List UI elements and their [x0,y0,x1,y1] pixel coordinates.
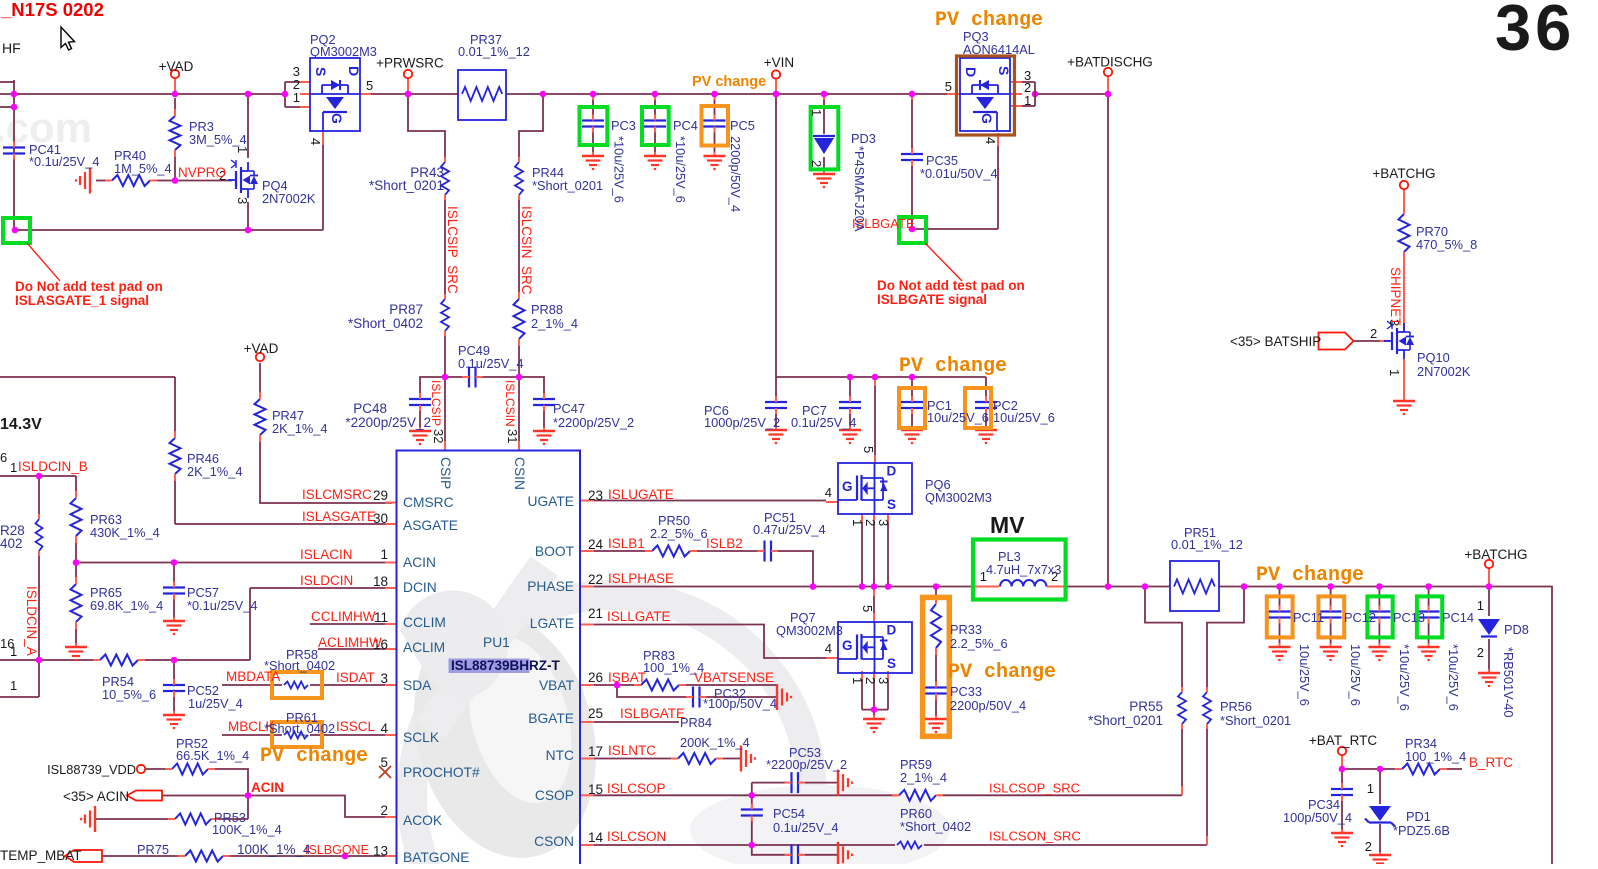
svg-text:S: S [887,656,896,671]
svg-text:31: 31 [505,429,520,443]
svg-text:4.7uH_7x7x3: 4.7uH_7x7x3 [986,562,1061,577]
svg-text:D: D [963,67,979,77]
svg-text:26: 26 [588,670,603,685]
svg-text:2.2_5%_6: 2.2_5%_6 [950,636,1008,651]
svg-text:BGATE: BGATE [528,711,574,726]
svg-text:32: 32 [431,429,446,443]
svg-text:36: 36 [1495,0,1575,64]
svg-text:*10u/25V_6: *10u/25V_6 [1446,644,1461,711]
svg-text:PC3: PC3 [611,118,636,133]
svg-text:1000p/25V_2: 1000p/25V_2 [704,415,780,430]
svg-text:ISDAT: ISDAT [336,670,375,685]
svg-text:2K_1%_4: 2K_1%_4 [272,421,328,436]
svg-text:25: 25 [588,706,603,721]
svg-text:*0.1u/25V_4: *0.1u/25V_4 [29,154,99,169]
svg-text:5: 5 [860,605,875,612]
svg-text:PR56: PR56 [1220,699,1252,714]
svg-text:PR87: PR87 [389,302,423,317]
svg-text:ISL88739BHRZ-T: ISL88739BHRZ-T [451,658,561,673]
svg-text:ISLCSIP_SRC: ISLCSIP_SRC [445,206,460,294]
svg-text:*0.1u/25V_4: *0.1u/25V_4 [187,598,257,613]
svg-text:430K_1%_4: 430K_1%_4 [90,525,160,540]
svg-text:PC47: PC47 [553,401,585,416]
svg-text:ISLDCIN: ISLDCIN [300,573,353,588]
svg-text:*Short_0201: *Short_0201 [369,178,444,193]
svg-text:CMSRC: CMSRC [403,495,454,510]
svg-text:S: S [996,66,1012,75]
svg-text:ISLBGATE signal: ISLBGATE signal [877,292,987,307]
svg-text:PC13: PC13 [1393,610,1425,625]
svg-text:0.47u/25V_4: 0.47u/25V_4 [753,522,826,537]
svg-text:6: 6 [0,450,7,465]
svg-text:3M_5%_4: 3M_5%_4 [189,132,247,147]
svg-text:1: 1 [850,519,865,526]
svg-text:G: G [329,113,345,124]
svg-text:PR55: PR55 [1129,699,1163,714]
svg-text:*PDZ5.6B: *PDZ5.6B [1393,823,1450,838]
svg-text:QM3002M3: QM3002M3 [776,623,843,638]
svg-text:CSON: CSON [534,834,574,849]
svg-text:0.01_1%_12: 0.01_1%_12 [458,44,530,59]
svg-text:*0.01u/50V_4: *0.01u/50V_4 [920,166,998,181]
svg-text:PQ10: PQ10 [1417,350,1450,365]
svg-text:ACLIM: ACLIM [403,640,445,655]
svg-text:B_RTC: B_RTC [1469,755,1513,770]
svg-text:G: G [842,479,853,494]
svg-text:66.5K_1%_4: 66.5K_1%_4 [176,748,249,763]
svg-text:4: 4 [825,641,832,656]
svg-text:*100p/50V_4: *100p/50V_4 [703,696,777,711]
svg-text:0.1u/25V_4: 0.1u/25V_4 [458,356,523,371]
svg-text:BATGONE: BATGONE [403,850,469,864]
svg-text:1: 1 [10,460,17,475]
svg-text:100p/50V_4: 100p/50V_4 [1283,810,1352,825]
svg-text:1: 1 [293,90,300,105]
svg-text:ACOK: ACOK [403,813,443,828]
svg-text:VBATSENSE: VBATSENSE [694,670,774,685]
svg-text:PD1: PD1 [1406,809,1431,824]
svg-text:*Short_0402: *Short_0402 [264,658,335,673]
svg-text:10u/25V_6: 10u/25V_6 [1297,644,1312,706]
svg-text:PC48: PC48 [353,401,387,416]
svg-text:CSOP: CSOP [535,788,574,803]
svg-text:PC33: PC33 [950,684,982,699]
svg-text:2: 2 [809,160,824,167]
svg-text:PV change: PV change [899,355,1007,378]
svg-text:+VIN: +VIN [764,55,794,70]
svg-text:TEMP_MBAT: TEMP_MBAT [0,848,82,863]
svg-text:ISLASGATE: ISLASGATE [302,509,376,524]
svg-text:ISLDCIN_A: ISLDCIN_A [24,586,39,656]
svg-text:PC12: PC12 [1344,610,1376,625]
svg-text:ISL88739_VDD: ISL88739_VDD [47,762,136,777]
svg-text:3: 3 [876,519,891,526]
svg-text:PROCHOT#: PROCHOT# [403,765,480,780]
svg-text:5: 5 [366,78,373,93]
svg-text:LGATE: LGATE [530,616,574,631]
svg-text:10u/25V_6: 10u/25V_6 [1348,644,1363,706]
svg-text:10_5%_6: 10_5%_6 [102,687,156,702]
svg-text:2K_1%_4: 2K_1%_4 [187,464,243,479]
svg-text:*2200p/25V_2: *2200p/25V_2 [345,415,431,430]
svg-text:10u/25V_6: 10u/25V_6 [993,410,1055,425]
svg-text:MV: MV [990,512,1025,538]
svg-text:QM3002M3: QM3002M3 [925,490,992,505]
svg-text:1: 1 [10,644,17,659]
svg-text:21: 21 [588,606,603,621]
svg-text:0.1u/25V_4: 0.1u/25V_4 [791,415,856,430]
svg-text:1: 1 [809,109,824,116]
svg-text:PC4: PC4 [673,118,698,133]
svg-text:DCIN: DCIN [403,580,437,595]
svg-text:ACIN: ACIN [251,780,284,795]
svg-text:PV change: PV change [1256,564,1364,587]
svg-text:2: 2 [863,519,878,526]
svg-text:ISLCSON_SRC: ISLCSON_SRC [989,829,1081,844]
svg-text:17: 17 [588,744,603,759]
svg-text:100_1%_4: 100_1%_4 [1405,749,1466,764]
svg-text:AON6414AL: AON6414AL [963,42,1035,57]
svg-text:PC14: PC14 [1442,610,1474,625]
svg-text:*Short_0201: *Short_0201 [1088,713,1163,728]
svg-text:ISLB2: ISLB2 [706,536,743,551]
svg-text:+VAD: +VAD [244,341,279,356]
svg-text:Do Not add test pad on: Do Not add test pad on [15,279,163,294]
svg-text:5: 5 [945,79,952,94]
svg-text:S: S [887,497,896,512]
svg-text:4: 4 [380,721,388,736]
svg-text:200K_1%_4: 200K_1%_4 [680,735,750,750]
svg-text:22: 22 [588,572,603,587]
svg-text:D: D [887,623,897,638]
svg-text:1: 1 [380,547,388,562]
svg-text:ISLCSIP: ISLCSIP [429,380,443,426]
svg-text:ISSCL: ISSCL [336,719,376,734]
svg-text:ISLCSIN_SRC: ISLCSIN_SRC [519,206,534,295]
svg-text:ISLDCIN_B: ISLDCIN_B [18,459,88,474]
svg-text:CSIP: CSIP [438,457,453,489]
svg-text:2: 2 [380,803,388,818]
svg-text:*2200p/25V_2: *2200p/25V_2 [553,415,634,430]
svg-text:1: 1 [235,146,250,153]
svg-text:UGATE: UGATE [527,494,574,509]
svg-text:+VAD: +VAD [159,59,194,74]
svg-text:PC11: PC11 [1293,610,1324,625]
svg-text:G: G [979,113,995,124]
svg-text:PR84: PR84 [680,715,712,730]
svg-text:ISLBGATE: ISLBGATE [620,706,685,721]
svg-text:1: 1 [1387,369,1402,376]
svg-text:1: 1 [10,678,17,693]
svg-text:Do Not add test pad on: Do Not add test pad on [877,278,1025,293]
svg-text:SDA: SDA [403,678,432,693]
svg-text:14: 14 [588,830,604,845]
svg-text:29: 29 [373,488,388,503]
svg-text:3: 3 [235,197,250,204]
svg-text:2: 2 [1365,839,1372,854]
svg-text:PR75: PR75 [137,842,169,857]
svg-text:ISLUGATE: ISLUGATE [608,487,674,502]
svg-text:2N7002K: 2N7002K [262,191,316,206]
svg-text:100K_1%_4: 100K_1%_4 [237,842,311,857]
svg-text:2_1%_4: 2_1%_4 [900,770,947,785]
svg-text:1u/25V_4: 1u/25V_4 [188,696,243,711]
svg-text:18: 18 [373,574,388,589]
svg-text:SCLK: SCLK [403,730,440,745]
svg-text:PV change: PV change [948,661,1056,684]
svg-text:*Short_0201: *Short_0201 [1220,713,1291,728]
svg-text:NTC: NTC [546,748,574,763]
svg-text:PD3: PD3 [851,131,876,146]
svg-text:3: 3 [876,677,891,684]
svg-text:1: 1 [1367,781,1374,796]
svg-text:PR33: PR33 [950,622,982,637]
svg-text:HF: HF [2,40,21,56]
svg-text:ISLB1: ISLB1 [608,536,645,551]
svg-text:ISLCSOP: ISLCSOP [607,781,666,796]
svg-text:4: 4 [825,485,832,500]
svg-text:VBAT: VBAT [539,678,575,693]
svg-text:G: G [842,638,853,653]
svg-text:*10u/25V_6: *10u/25V_6 [673,136,688,203]
svg-text:24: 24 [588,537,604,552]
svg-text:1: 1 [1024,93,1031,108]
svg-text:*Short_0201: *Short_0201 [532,178,603,193]
svg-text:*RB501V-40: *RB501V-40 [1501,647,1516,717]
svg-text:+BAT_RTC: +BAT_RTC [1309,733,1377,748]
svg-text:4: 4 [308,138,323,145]
svg-text:<35> ACIN: <35> ACIN [63,789,129,804]
svg-text:*Short_0402: *Short_0402 [900,819,971,834]
svg-text:D: D [887,464,897,479]
svg-text:<35> BATSHIP: <35> BATSHIP [1230,334,1321,349]
svg-text:470_5%_8: 470_5%_8 [1416,237,1477,252]
svg-text:CCLIMHW: CCLIMHW [311,609,376,624]
svg-text:2: 2 [1477,645,1484,660]
svg-text:2: 2 [1370,326,1377,341]
svg-text:ISLCSIN: ISLCSIN [503,380,517,427]
svg-text:PC54: PC54 [773,806,805,821]
svg-text:ISLCSOP_SRC: ISLCSOP_SRC [989,781,1080,796]
svg-text:*Short_0402: *Short_0402 [348,316,423,331]
svg-text:ISLBGONE: ISLBGONE [305,843,369,857]
svg-text:ISLCMSRC: ISLCMSRC [302,487,372,502]
svg-text:*10u/25V_6: *10u/25V_6 [612,136,627,203]
svg-text:PV change: PV change [692,74,766,90]
svg-text:69.8K_1%_4: 69.8K_1%_4 [90,598,163,613]
svg-text:2N7002K: 2N7002K [1417,364,1471,379]
svg-text:2: 2 [863,677,878,684]
svg-text:CSIN: CSIN [512,457,527,490]
svg-text:CCLIM: CCLIM [403,615,446,630]
svg-text:*2200p/25V_2: *2200p/25V_2 [766,757,847,772]
svg-text:11: 11 [374,610,388,625]
svg-text:3: 3 [380,671,388,686]
svg-text:15: 15 [588,782,603,797]
svg-text:2200p/50V_4: 2200p/50V_4 [728,136,743,212]
svg-text:+PRWSRC: +PRWSRC [376,56,444,71]
svg-text:*Short_0402: *Short_0402 [264,721,335,736]
svg-text:+BATDISCHG: +BATDISCHG [1067,55,1153,70]
svg-text:_N17S 0202: _N17S 0202 [0,0,104,20]
svg-text:BOOT: BOOT [535,544,575,559]
svg-text:*10u/25V_6: *10u/25V_6 [1397,644,1412,711]
svg-text:ISLLGATE: ISLLGATE [607,609,671,624]
svg-text:PV change: PV change [260,745,368,768]
svg-text:ISLASGATE_1 signal: ISLASGATE_1 signal [15,293,149,308]
svg-text:5: 5 [380,755,388,770]
svg-text:1M_5%_4: 1M_5%_4 [114,161,172,176]
svg-text:ASGATE: ASGATE [403,518,458,533]
svg-text:2200p/50V_4: 2200p/50V_4 [950,698,1026,713]
svg-text:*P4SMAFJ20A: *P4SMAFJ20A [852,146,867,232]
svg-text:10u/25V_6: 10u/25V_6 [927,410,989,425]
svg-text:PHASE: PHASE [527,579,574,594]
svg-text:S: S [313,67,329,76]
svg-text:ISBAT: ISBAT [608,670,646,685]
svg-text:ISLACIN: ISLACIN [300,547,353,562]
svg-text:PD8: PD8 [1504,622,1529,637]
svg-text:23: 23 [588,488,603,503]
svg-text:+BATCHG: +BATCHG [1464,547,1527,562]
svg-text:4: 4 [983,137,998,144]
svg-text:ISLCSON: ISLCSON [607,829,666,844]
svg-text:PV change: PV change [935,9,1043,32]
svg-text:D: D [346,66,362,76]
svg-text:5: 5 [861,446,876,453]
svg-text:13: 13 [373,844,388,859]
svg-text:+BATCHG: +BATCHG [1372,166,1435,181]
svg-text:ACLIMHW: ACLIMHW [318,635,382,650]
svg-text:PU1: PU1 [483,635,510,650]
svg-text:2_1%_4: 2_1%_4 [531,316,578,331]
svg-text:NVPRO: NVPRO [178,165,226,180]
svg-text:2.2_5%_6: 2.2_5%_6 [650,526,708,541]
svg-text:1: 1 [1477,598,1484,613]
svg-text:1: 1 [850,677,865,684]
svg-text:402: 402 [0,536,23,551]
svg-text:100K_1%_4: 100K_1%_4 [212,822,282,837]
svg-text:ACIN: ACIN [403,555,436,570]
svg-text:0.1u/25V_4: 0.1u/25V_4 [773,820,838,835]
svg-text:ISLPHASE: ISLPHASE [608,571,674,586]
svg-text:14.3V: 14.3V [0,416,42,433]
svg-text:SHIPNET: SHIPNET [1388,267,1403,326]
svg-text:PR88: PR88 [531,302,563,317]
svg-text:ISLNTC: ISLNTC [608,743,656,758]
svg-text:0.01_1%_12: 0.01_1%_12 [1171,537,1243,552]
svg-text:PC5: PC5 [730,118,755,133]
svg-text:QM3002M3: QM3002M3 [310,44,377,59]
svg-text:100_1%_4: 100_1%_4 [643,660,704,675]
